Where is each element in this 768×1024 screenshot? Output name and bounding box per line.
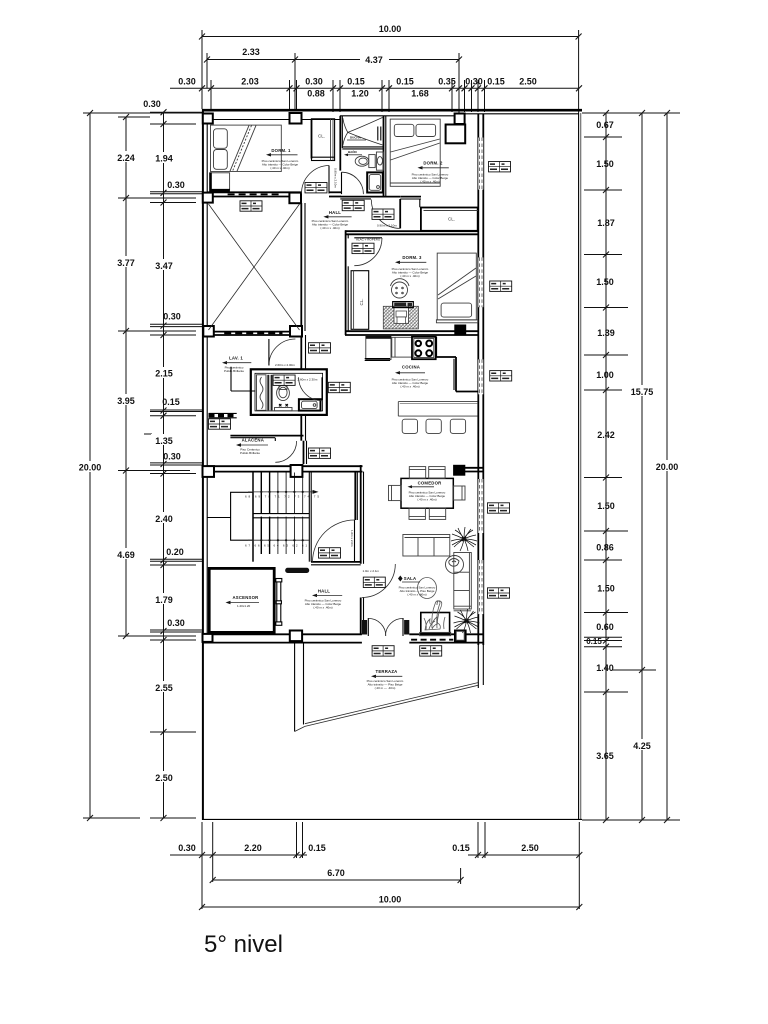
svg-text:10.00: 10.00: [379, 24, 402, 34]
window table V dorm2: [489, 162, 511, 172]
right dimension chain detail: [582, 113, 680, 820]
svg-text:2.40: 2.40: [155, 514, 173, 524]
svg-text:1.94: 1.94: [155, 154, 173, 164]
comedor chairs: [389, 467, 466, 520]
svg-text:ALAC + ROPERO: ALAC + ROPERO: [356, 238, 381, 242]
stairs left void: [231, 492, 253, 540]
svg-text:Pulido Brillante: Pulido Brillante: [240, 451, 260, 455]
door table dorm2: [372, 209, 394, 219]
svg-text:1.35: 1.35: [155, 436, 173, 446]
terrace diagonal edge: [295, 683, 478, 732]
svg-text:0.30: 0.30: [465, 77, 483, 87]
svg-text:COCINA: COCINA: [402, 365, 420, 370]
fixture table bath3: [273, 375, 295, 385]
svg-text:15.75: 15.75: [631, 387, 654, 397]
dorm3 desk keyboard: [393, 302, 414, 308]
svg-text:6.70: 6.70: [327, 868, 345, 878]
svg-text:1.0m x 2.1m: 1.0m x 2.1m: [363, 569, 380, 573]
wall DORM3 bottom / kitchen top y333: [345, 331, 478, 335]
plant comedor: [451, 527, 477, 551]
oblique tick marks: [87, 34, 670, 911]
filled columns x460: [454, 325, 466, 475]
svg-text:(.40 m x .40m): (.40 m x .40m): [400, 384, 419, 388]
svg-text:20.00: 20.00: [656, 462, 679, 472]
plot boundary top wall: [202, 110, 582, 119]
kitchen counter sink: [392, 337, 412, 357]
column x295 y470: [291, 465, 303, 477]
kitchen bar counter: [398, 402, 477, 417]
door table stairs: [319, 548, 341, 558]
svg-text:2.60m x 2.30m: 2.60m x 2.30m: [298, 377, 318, 381]
bottom dimension row A: [170, 822, 580, 909]
dorm3 rug hatched: [383, 306, 418, 329]
dorm2 door: [371, 197, 421, 229]
terrace double door: [362, 618, 409, 636]
svg-text:2.15: 2.15: [155, 369, 173, 379]
wall void-room bottom y333 left: [207, 332, 302, 335]
bath2 sink vanity: [376, 152, 383, 170]
svg-text:1.20x1.20: 1.20x1.20: [237, 604, 251, 608]
sala round table: [446, 556, 464, 574]
svg-text:4.25: 4.25: [633, 741, 651, 751]
alacena label: [236, 437, 268, 455]
svg-text:BAÑO: BAÑO: [348, 149, 357, 154]
terrace right stub wall: [478, 645, 483, 688]
svg-text:2.03: 2.03: [241, 77, 259, 87]
LAV label: [222, 356, 251, 373]
stairs door bottom right: [313, 520, 355, 562]
column left y470: [203, 466, 215, 477]
svg-text:(.40 m x .40m): (.40 m x .40m): [407, 593, 426, 597]
svg-text:0.67: 0.67: [596, 120, 614, 130]
top dimension row 2.33 / 4.37: [207, 47, 459, 113]
svg-text:1.40: 1.40: [596, 663, 614, 673]
svg-text:68 69 70 71 72 73 74 75: 68 69 70 71 72 73 74 75: [245, 495, 319, 499]
svg-text:(.40 m x .40m): (.40 m x .40m): [270, 166, 289, 170]
bath block bottom wall y197: [340, 197, 400, 199]
svg-text:2.24: 2.24: [117, 153, 135, 163]
svg-text:0.30: 0.30: [167, 180, 185, 190]
svg-text:1.50: 1.50: [597, 501, 615, 511]
svg-text:1.79: 1.79: [155, 595, 173, 605]
svg-text:2.20: 2.20: [244, 843, 262, 853]
building right wall with windows: [478, 114, 483, 645]
svg-text:0.15: 0.15: [308, 843, 326, 853]
top dimension row 10.00: [202, 24, 579, 113]
svg-text:CL.: CL.: [359, 298, 364, 305]
column x460 y638: [455, 631, 466, 642]
wall building bottom y634-643: [202, 634, 483, 642]
wall stair room right x356: [355, 472, 357, 520]
svg-text:1.50: 1.50: [597, 584, 615, 594]
wall DORM3 left x346: [346, 230, 349, 335]
LAV room divider: [231, 367, 255, 391]
svg-text:(.40 m x .40m): (.40 m x .40m): [417, 497, 436, 501]
terraza label: [367, 669, 404, 690]
svg-text:2.60m x 2.00m: 2.60m x 2.00m: [275, 363, 295, 367]
svg-text:0.15: 0.15: [487, 77, 505, 87]
svg-text:2.42: 2.42: [597, 430, 615, 440]
left dimension chain 2.24/3.77/3.95/4.69: [113, 117, 196, 636]
stairs: [253, 473, 311, 562]
bath2 label: [344, 149, 362, 156]
svg-text:3.77: 3.77: [117, 258, 135, 268]
svg-text:ALACENA: ALACENA: [242, 437, 264, 442]
hall door frame to ascensor area: [276, 579, 282, 626]
closet CL dorm1 bottom wall: [312, 156, 335, 158]
svg-text:1.20: 1.20: [351, 89, 369, 99]
svg-text:1.50: 1.50: [596, 277, 614, 287]
plant planter box: [456, 631, 464, 640]
svg-text:0.30: 0.30: [167, 618, 185, 628]
svg-text:(.40 m — .40m): (.40 m — .40m): [375, 686, 396, 690]
svg-text:1.39: 1.39: [597, 328, 615, 338]
plot boundary bottom line: [202, 818, 582, 820]
bath box door: [299, 377, 322, 400]
bath box walls: [251, 369, 327, 415]
svg-text:LAV. 1: LAV. 1: [229, 356, 243, 361]
svg-text:DUCHA: DUCHA: [350, 136, 362, 140]
svg-text:3.47: 3.47: [155, 261, 173, 271]
window table V sala: [488, 588, 510, 598]
column left y638: [203, 634, 213, 642]
dorm3 door: [354, 238, 382, 266]
wall stair-hall top y468: [207, 466, 363, 471]
svg-text:0.90m x 2.10m: 0.90m x 2.10m: [377, 224, 397, 228]
bottom dimension row 6.70: [213, 868, 461, 884]
right dimension chain 15.75 / 4.25: [612, 113, 659, 820]
svg-text:0.30: 0.30: [178, 77, 196, 87]
columns: [203, 113, 466, 642]
closet table dorm3: [352, 243, 374, 253]
door table corridor: [305, 183, 327, 193]
svg-text:0.60: 0.60: [596, 622, 614, 632]
svg-text:(.40 m x .40m): (.40 m x .40m): [420, 180, 439, 184]
svg-text:1.0m x 2.0m: 1.0m x 2.0m: [350, 530, 354, 547]
column top x459: [455, 114, 465, 125]
svg-text:0.90m x 2.10m: 0.90m x 2.10m: [334, 168, 338, 188]
ducha label: [347, 136, 366, 141]
svg-text:0.15: 0.15: [396, 77, 414, 87]
svg-text:1.00: 1.00: [596, 370, 614, 380]
svg-text:SALA: SALA: [404, 576, 417, 581]
dorm3 bed: [436, 253, 477, 323]
wall LAV right x302-306: [301, 335, 306, 464]
svg-text:0.30: 0.30: [143, 99, 161, 109]
svg-text:DORM. 2: DORM. 2: [423, 161, 443, 166]
svg-text:1.50: 1.50: [596, 159, 614, 169]
svg-text:(.40 m x .40m): (.40 m x .40m): [313, 606, 332, 610]
shower X pattern: [343, 118, 383, 146]
sideboard: [403, 535, 450, 557]
bath2 door: [342, 172, 364, 194]
dorm2 bed: [390, 119, 440, 186]
wall comedor top right y469: [454, 468, 484, 472]
dashed ledge LAV bottom: [209, 414, 237, 417]
svg-text:2.33: 2.33: [242, 47, 260, 57]
dorm2 nightstand: [446, 125, 466, 144]
sala sofa: [454, 553, 472, 611]
door table lav: [309, 343, 331, 353]
dorm3 label: [392, 255, 429, 278]
right dimension chain 20.00: [652, 113, 682, 820]
svg-text:4.69: 4.69: [117, 550, 135, 560]
kitchen east wall jog: [436, 337, 478, 392]
window table V cocina: [490, 371, 512, 381]
shower dorm area walls: [340, 116, 386, 197]
svg-text:0.15: 0.15: [452, 843, 470, 853]
svg-text:(.40 m x .40m): (.40 m x .40m): [400, 274, 419, 278]
svg-text:CL.: CL.: [318, 134, 325, 139]
svg-text:1.68: 1.68: [411, 89, 429, 99]
svg-text:0.15: 0.15: [586, 637, 602, 646]
bottom dimension row 10.00: [202, 895, 579, 908]
column x295 y638: [290, 631, 302, 642]
bath2 shower tray: [367, 172, 383, 192]
door table hall: [342, 200, 364, 210]
wall void-room right x303: [301, 203, 305, 331]
left dimension chain detail: [143, 99, 202, 818]
svg-text:HALL: HALL: [318, 588, 330, 593]
svg-text:3.95: 3.95: [117, 396, 135, 406]
lower hall label: [305, 588, 343, 609]
svg-text:10.00: 10.00: [379, 895, 402, 905]
plot boundary right line: [579, 113, 581, 819]
svg-text:TERRAZA: TERRAZA: [376, 669, 398, 674]
wall hall/sala divider x362: [361, 465, 364, 634]
svg-text:0.30: 0.30: [163, 452, 181, 462]
svg-text:0.15: 0.15: [347, 77, 365, 87]
column x295 y197: [289, 193, 301, 204]
void room X pattern: [209, 204, 300, 330]
svg-text:0.30: 0.30: [305, 77, 323, 87]
top dimension row detail ticks: [170, 77, 579, 113]
terrace left stub wall: [295, 643, 304, 732]
column left y331: [203, 326, 214, 337]
svg-text:(.40 m x .40m): (.40 m x .40m): [320, 226, 339, 230]
svg-text:0.30: 0.30: [178, 843, 196, 853]
svg-text:0.35: 0.35: [438, 77, 456, 87]
svg-text:0.20: 0.20: [166, 547, 184, 557]
window table V dorm3: [490, 281, 512, 291]
dorm1 door: [302, 166, 342, 197]
fireplace: [420, 601, 451, 636]
svg-text:CL.: CL.: [448, 217, 455, 222]
wall DORM2/DORM3 y232: [345, 231, 478, 234]
window table V comedor: [488, 503, 510, 513]
bath box tub: [299, 399, 321, 410]
dorm1 bed: [211, 125, 282, 171]
stairs arrows and numbers: [245, 490, 319, 548]
svg-text:2.50: 2.50: [521, 843, 539, 853]
dorm1 label: [262, 148, 299, 170]
closet CL dorm2: [421, 208, 478, 231]
wall stair room bottom right y563: [311, 562, 361, 565]
closet CL dorm1: [312, 119, 335, 161]
svg-text:HALL: HALL: [329, 210, 341, 215]
kitchen stove: [412, 337, 436, 359]
kitchen stools: [402, 419, 465, 433]
svg-text:2.55: 2.55: [155, 683, 173, 693]
door table alacena: [309, 448, 331, 458]
column top-left: [203, 114, 213, 124]
hall-sala door: [362, 564, 396, 598]
comedor table: [401, 478, 453, 508]
svg-text:3.65: 3.65: [596, 751, 614, 761]
kitchen fridge: [365, 336, 391, 361]
bath box shower strip: [257, 375, 272, 411]
svg-text:DORM. 3: DORM. 3: [402, 255, 422, 260]
plot boundary left wall: [203, 109, 207, 820]
window table terraza: [420, 646, 442, 656]
svg-text:1.87: 1.87: [597, 218, 615, 228]
dorm1 nightstand: [211, 172, 230, 190]
LAV door arc: [269, 339, 296, 366]
ascensor box: [209, 568, 274, 632]
svg-text:0.15: 0.15: [162, 397, 180, 407]
svg-text:2.50: 2.50: [519, 77, 537, 87]
svg-text:0.86: 0.86: [596, 543, 614, 553]
svg-text:20.00: 20.00: [79, 463, 102, 473]
table lav shelf: [209, 419, 231, 429]
column top x295: [290, 113, 302, 124]
column x295 y331: [290, 326, 302, 337]
svg-text:DORM. 1: DORM. 1: [271, 148, 291, 153]
svg-text:5° nivel: 5° nivel: [204, 931, 283, 958]
svg-text:COMEDOR: COMEDOR: [418, 480, 443, 485]
dorm2 label: [412, 161, 449, 184]
sala label: [398, 576, 437, 599]
dorm3 closet CL: [351, 271, 369, 330]
left dimension chain 20.00: [76, 113, 202, 818]
svg-text:0.88: 0.88: [307, 89, 325, 99]
wall DORM1 bottom y196: [207, 192, 302, 196]
door table hall-sala: [363, 577, 385, 587]
hall black label bar: [285, 568, 309, 573]
svg-text:0.30: 0.30: [163, 312, 181, 322]
svg-text:2.50: 2.50: [155, 773, 173, 783]
wall DORM1 right x312: [311, 119, 313, 159]
bath box toilet: [275, 385, 293, 411]
alacena top wall: [230, 436, 303, 438]
door table bath3: [328, 382, 350, 392]
dorm3 desk chair: [391, 279, 410, 298]
svg-text:ASCENSOR: ASCENSOR: [233, 595, 260, 600]
alacena door: [275, 438, 296, 463]
cocina label: [392, 365, 429, 389]
toilet: [355, 155, 375, 168]
dorm3 alac text + table: [356, 238, 381, 242]
dimension tables: [209, 162, 512, 657]
plant sala: [454, 609, 480, 633]
column left y197: [203, 193, 213, 203]
upper hall label: [312, 210, 352, 230]
door table terraza: [372, 646, 394, 656]
svg-text:Pulido Brillante: Pulido Brillante: [224, 369, 244, 373]
svg-text:4.37: 4.37: [365, 55, 383, 65]
window dashes right wall: [480, 138, 482, 615]
window table dorm1: [240, 201, 262, 211]
shower door jamb: [378, 127, 381, 141]
